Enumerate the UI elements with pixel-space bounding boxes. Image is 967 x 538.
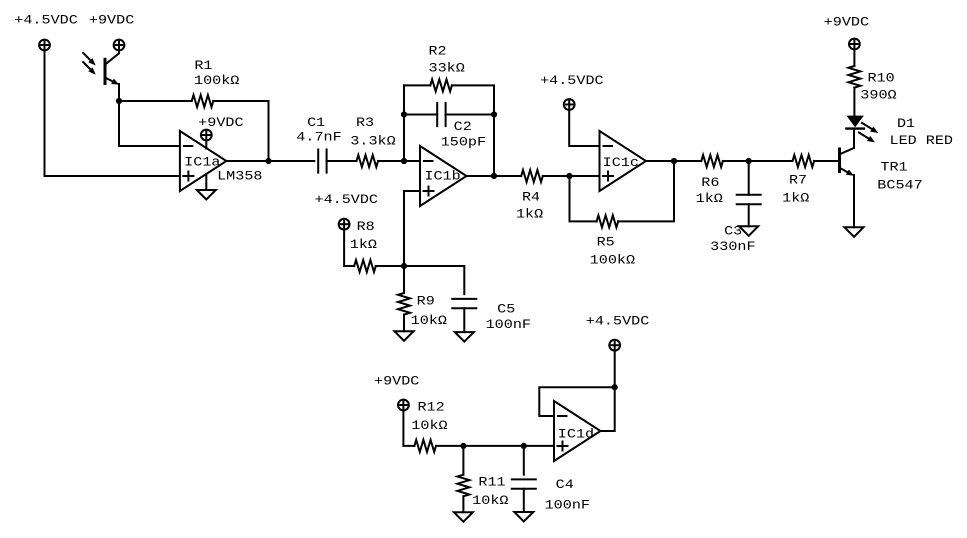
resistor R8 [354,260,376,272]
capacitor C4 [512,478,536,480]
capacitor C1 [317,149,319,172]
svg-text:+9VDC: +9VDC [374,374,419,388]
IC1b non-inverting branch down [404,191,420,266]
resistor R1 [192,95,214,107]
node B junction (IC1b inverting input) [401,158,407,164]
phototransistor Q1 base bar [104,59,107,83]
resistor R2 [430,79,452,91]
wire C4 to ground [523,489,525,512]
IC1d feedback loop wire [539,387,614,416]
resistor R7 [793,155,815,167]
wire node G down to C4 [523,446,525,475]
svg-text:+4.5VDC: +4.5VDC [540,74,604,88]
svg-text:100nF: 100nF [486,318,531,332]
wire R4 to IC1c non-inverting input [543,175,600,177]
wire T6 down to R10 [853,49,855,66]
wire R5 up to IC1c output [618,161,674,221]
wire R11 to ground [462,496,464,512]
svg-text:+4.5VDC: +4.5VDC [315,193,379,207]
node D junction (IC1c+/R5) [566,173,572,179]
svg-text:IC1a: IC1a [184,155,221,169]
op-amp IC1a [180,131,227,191]
op-amp IC1d [554,401,601,461]
svg-text:IC1c: IC1c [603,156,639,170]
resistor R4 [521,170,543,182]
wire T5 down to IC1c inverting input [569,110,599,146]
wire R1 to IC1a output vertical [213,101,268,161]
op-amp IC1b [420,146,467,206]
wire node E down to C3 [748,161,750,195]
svg-text:1kΩ: 1kΩ [516,208,544,222]
svg-text:+9VDC: +9VDC [824,16,869,30]
light arrow 1 into phototransistor [83,53,90,60]
svg-text:C5: C5 [497,303,515,317]
wire TR1 emitter to ground [853,175,855,227]
svg-text:3.3kΩ: 3.3kΩ [350,134,396,148]
svg-text:BC547: BC547 [877,179,922,193]
svg-text:R1: R1 [194,59,212,73]
wire R2 to right vertical [452,85,494,176]
ground symbol TR1 [845,227,864,237]
svg-text:R2: R2 [429,45,447,59]
TR1 collector lead [853,142,855,148]
svg-text:R11: R11 [478,476,505,490]
wire R9 to ground [403,315,405,332]
ground symbol C4 [514,512,533,522]
wire node C to R9 [403,266,405,293]
svg-text:100kΩ: 100kΩ [590,254,636,268]
resistor R5 [597,215,619,227]
resistor R9 [398,293,410,315]
resistor R11 [457,475,469,497]
light arrow 2 into phototransistor [83,62,90,69]
svg-text:R7: R7 [789,174,807,188]
wire R3 to IC1b inverting node [378,160,420,162]
transistor TR1 base bar [838,149,841,172]
node F junction (R12/R11) [460,443,466,449]
svg-text:R3: R3 [356,116,374,130]
wire C3 to ground [748,204,750,226]
svg-text:R9: R9 [417,295,435,309]
IC1b output junction dot [491,173,497,179]
LED D1 triangle [846,116,864,128]
wire emitter down to node A [118,84,120,101]
ground pin stem of IC1a [205,174,207,190]
C2 left junction dot [401,111,407,117]
wire R12 to node F [436,445,463,447]
svg-text:R12: R12 [418,401,445,415]
IC1d feedback junction dot [612,384,618,390]
power terminal +9VDC above R10 [849,39,860,50]
phototransistor collector lead to +9VDC [105,50,119,64]
ground symbol R9 [395,331,414,341]
wire to R2 [404,84,430,86]
wire node E to R7 [749,160,793,162]
wire node F to node G [463,445,523,447]
svg-text:LM358: LM358 [217,169,262,183]
wire node D down to R5 [570,176,597,221]
power terminal +9VDC (phototransistor collector) [114,40,125,51]
wire C1 to R3 [327,160,357,162]
svg-text:+9VDC: +9VDC [198,116,243,130]
IC1a output junction dot [265,158,271,164]
svg-text:100nF: 100nF [545,499,590,513]
svg-text:+9VDC: +9VDC [89,14,134,28]
svg-text:100kΩ: 100kΩ [194,74,240,88]
svg-text:33kΩ: 33kΩ [429,62,466,76]
wire node C right to C5 [404,266,464,294]
svg-text:C2: C2 [454,120,472,134]
wire T4 down to R8 [344,230,354,267]
svg-text:1kΩ: 1kΩ [350,238,378,252]
svg-text:R10: R10 [868,71,895,85]
capacitor C5 [452,298,476,300]
wire C2 right plate to vertical [446,114,494,116]
svg-text:10kΩ: 10kΩ [472,494,509,508]
wire node A to R1 [119,100,192,102]
svg-text:IC1d: IC1d [558,428,594,442]
svg-text:IC1b: IC1b [424,170,460,184]
svg-text:R6: R6 [701,176,719,190]
power terminal +4.5VDC above R8 [339,219,350,230]
svg-text:C4: C4 [556,478,574,492]
wire IC1c output [646,160,701,162]
C2 right junction dot [491,111,497,117]
svg-text:C3: C3 [724,225,742,239]
node E junction (R6/C3/R7) [746,158,752,164]
svg-text:C1: C1 [307,116,325,130]
resistor R12 [414,440,436,452]
node G junction (C4/IC1d+) [521,443,527,449]
svg-text:R4: R4 [522,191,540,205]
wire IC1a output to C1 [226,160,314,162]
ground symbol C5 [455,332,474,342]
ground symbol R11 [454,512,473,522]
resistor R10 [848,66,860,88]
wire node A down to IC1a inverting input [119,101,180,146]
svg-text:150pF: 150pF [441,136,486,150]
wire T7 down to R12 [403,410,414,446]
wire IC1b output to R4 [467,175,522,177]
power terminal +4.5VDC at IC1d output [609,340,620,351]
power terminal +9VDC above R12 [398,400,409,411]
wire node B up to feedback [403,85,405,161]
op-amp IC1c [600,131,647,191]
LED D1 cathode bar [846,127,864,129]
wire R8 to node C [376,265,404,267]
ground symbol IC1a [197,190,216,200]
power terminal +4.5VDC above IC1c [564,99,575,110]
svg-text:R8: R8 [357,220,375,234]
light arrow 2 out of LED [859,133,869,139]
wire R10 to D1 [853,88,855,116]
wire IC1d output up to +4.5VDC terminal [601,351,615,432]
TR1 emitter lead with arrow [840,168,848,172]
wire node F down to R11 [462,446,464,475]
wire R6 to node E [723,160,749,162]
node C junction (R8/R9/C5/IC1b+) [401,263,407,269]
svg-text:4.7nF: 4.7nF [296,131,341,145]
svg-text:R5: R5 [597,236,615,250]
svg-text:1kΩ: 1kΩ [696,192,724,206]
phototransistor emitter lead with arrow [105,78,112,82]
capacitor C2 [436,103,438,126]
wire to C2 left plate [404,114,437,116]
node A junction (emitter/R1/IC1a-) [116,98,122,104]
svg-text:+4.5VDC: +4.5VDC [586,314,650,328]
svg-text:330nF: 330nF [710,240,755,254]
resistor R3 [357,155,379,167]
svg-text:390Ω: 390Ω [860,89,897,103]
power terminal +4.5VDC (left supply) [39,40,50,51]
IC1c output junction dot [671,158,677,164]
wire D1 to TR1 collector [853,130,855,148]
wire R7 to TR1 base [814,160,838,162]
light arrow 1 out of LED [862,123,872,129]
wire T1 +4.5VDC down to IC1a non-inverting input [45,50,180,176]
power pin +9VDC on IC1a [205,140,207,148]
wire node G to IC1d non-inverting input [524,445,554,447]
svg-text:D1: D1 [897,117,915,131]
svg-text:10kΩ: 10kΩ [411,314,448,328]
resistor R6 [701,155,723,167]
svg-text:TR1: TR1 [880,161,907,175]
wire C5 to ground [463,308,465,332]
capacitor C3 [737,194,761,196]
svg-text:1kΩ: 1kΩ [782,192,810,206]
ground symbol C3 [739,226,758,236]
svg-text:10kΩ: 10kΩ [411,419,448,433]
svg-text:LED RED: LED RED [890,134,954,148]
svg-text:+4.5VDC: +4.5VDC [14,14,78,28]
